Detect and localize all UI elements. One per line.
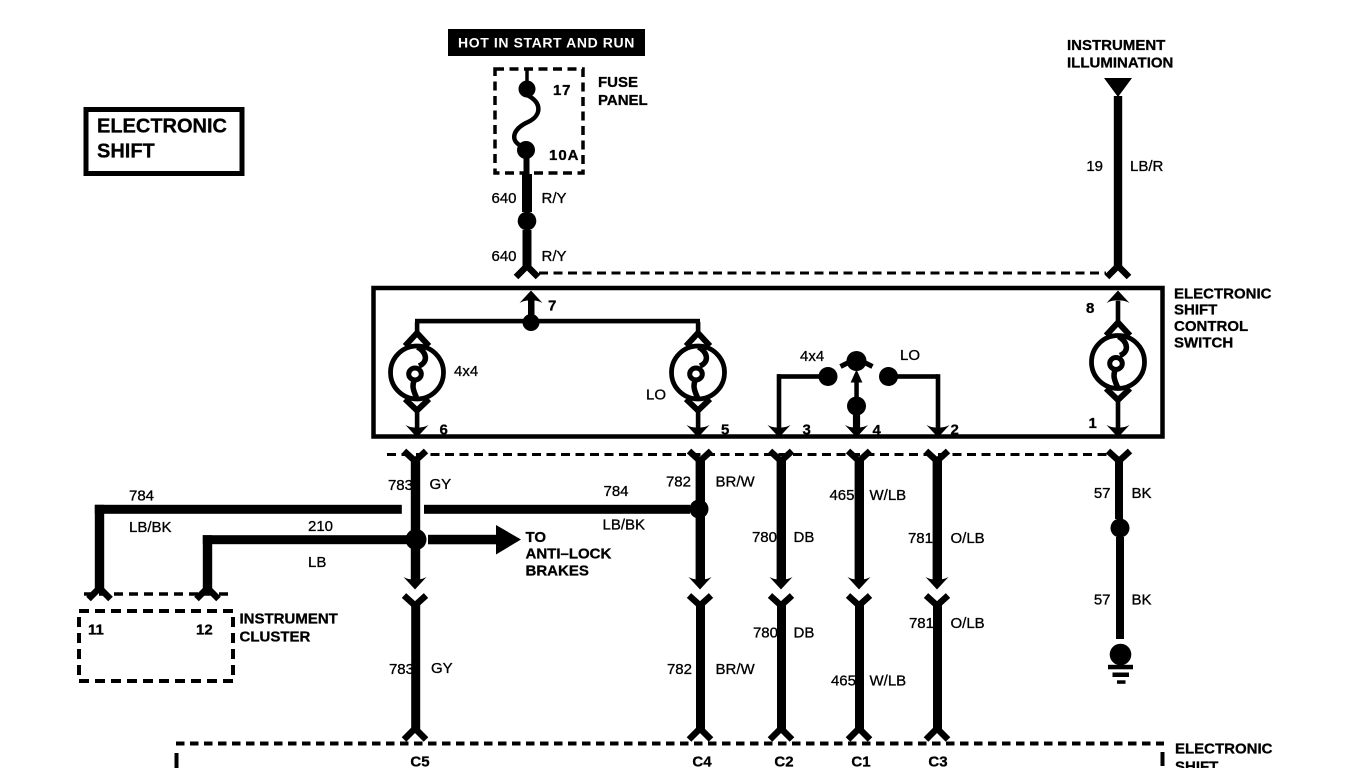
svg-text:780: 780	[753, 625, 778, 642]
svg-text:BK: BK	[1132, 485, 1152, 502]
label 57 BK lower	[1094, 592, 1152, 609]
selector switch common contact	[841, 351, 873, 371]
wire 640 R/Y lower segment	[523, 230, 532, 266]
svg-text:782: 782	[667, 661, 692, 678]
connector legs wire 784 at instrument cluster	[89, 588, 111, 599]
svg-text:57: 57	[1094, 592, 1111, 609]
svg-text:BK: BK	[1132, 592, 1152, 609]
svg-text:C4: C4	[692, 754, 712, 768]
inline connector 781 arrow	[926, 577, 949, 590]
label 784 LB/BK left	[129, 488, 172, 537]
svg-text:12: 12	[196, 622, 213, 639]
svg-text:BR/W: BR/W	[716, 474, 756, 491]
connector legs 640 at switch connector	[516, 266, 538, 277]
wire contact to pin 2	[896, 374, 940, 430]
svg-text:7: 7	[548, 298, 556, 315]
connector cup wire 780	[770, 451, 792, 461]
inline connector 780 arrow	[770, 577, 793, 590]
inline connector 782 arrow	[689, 577, 712, 590]
svg-text:ELECTRONIC: ELECTRONIC	[97, 116, 227, 138]
svg-text:BRAKES: BRAKES	[526, 563, 589, 580]
svg-text:SHIFT: SHIFT	[1175, 759, 1218, 768]
label 783 GY upper	[388, 476, 451, 494]
title box ELECTRONIC SHIFT	[86, 110, 242, 174]
svg-text:8: 8	[1086, 300, 1094, 317]
lamp LO indicator	[672, 322, 725, 430]
label 780 DB upper	[752, 529, 814, 546]
connector legs wire 210 at instrument cluster	[197, 588, 219, 599]
svg-text:LB/R: LB/R	[1130, 158, 1164, 175]
wire 780 DB lower	[777, 604, 786, 729]
selector switch wiper arrow	[851, 370, 863, 383]
inline connector 781 cup	[926, 596, 948, 606]
arrow to anti-lock brakes	[428, 525, 521, 555]
splice S640	[518, 212, 537, 231]
fuse panel label	[598, 74, 648, 109]
svg-text:465: 465	[831, 673, 856, 690]
svg-text:1: 1	[1089, 415, 1097, 432]
wire 781 O/LB upper	[933, 460, 942, 581]
svg-text:GY: GY	[430, 476, 452, 493]
svg-text:17: 17	[553, 82, 571, 99]
svg-text:4: 4	[873, 422, 882, 439]
wire 782 BR/W lower	[696, 604, 705, 729]
pin 8 arrow	[1107, 291, 1130, 304]
svg-text:ANTI–LOCK: ANTI–LOCK	[526, 546, 612, 563]
svg-text:11: 11	[88, 622, 104, 639]
instrument illumination feed arrow	[1104, 78, 1132, 97]
svg-text:O/LB: O/LB	[951, 615, 985, 632]
connector legs C3	[926, 729, 948, 740]
svg-text:LB/BK: LB/BK	[603, 517, 646, 534]
svg-text:5: 5	[721, 422, 729, 439]
bottom connector left tick	[175, 753, 179, 768]
svg-text:W/LB: W/LB	[870, 487, 907, 504]
connector legs C1	[848, 729, 870, 740]
svg-text:SWITCH: SWITCH	[1174, 335, 1233, 352]
wire 784 LB/BK left	[95, 505, 402, 590]
svg-text:HOT IN START AND RUN: HOT IN START AND RUN	[458, 35, 635, 51]
label 780 DB lower	[753, 625, 814, 642]
pin 3 arrow	[768, 425, 791, 438]
wire 19 LB/R	[1114, 96, 1122, 266]
wire 780 DB upper	[777, 460, 786, 581]
svg-text:783: 783	[389, 661, 414, 678]
svg-text:4x4: 4x4	[800, 348, 824, 365]
svg-text:780: 780	[752, 529, 777, 546]
pin 1 arrow	[1107, 425, 1130, 438]
svg-text:INSTRUMENT: INSTRUMENT	[240, 611, 338, 628]
svg-text:R/Y: R/Y	[542, 190, 567, 207]
svg-text:C2: C2	[774, 754, 793, 768]
switch contact 4x4 dot	[819, 367, 838, 386]
inline connector 783 arrow	[404, 577, 427, 590]
inline connector 783 cup	[404, 596, 426, 606]
wire contact to pin 3	[777, 374, 820, 430]
svg-text:INSTRUMENT: INSTRUMENT	[1067, 37, 1165, 54]
fuse panel dashed box	[495, 69, 583, 173]
wire 781 O/LB lower	[933, 604, 942, 729]
connector cup wire 57	[1108, 451, 1130, 461]
wire 783 GY lower	[411, 604, 420, 729]
label 781 O/LB lower	[909, 615, 985, 632]
connector cup wire 782	[689, 451, 711, 461]
harness connector dashed line below switch	[387, 453, 1110, 456]
svg-text:GY: GY	[431, 660, 453, 677]
svg-text:C1: C1	[851, 754, 870, 768]
svg-text:ELECTRONIC: ELECTRONIC	[1174, 286, 1272, 303]
wire 640 R/Y upper segment	[522, 174, 532, 212]
svg-text:LB/BK: LB/BK	[129, 519, 172, 536]
svg-text:FUSE: FUSE	[598, 74, 638, 91]
svg-text:CONTROL: CONTROL	[1174, 318, 1248, 335]
svg-text:DB: DB	[794, 625, 815, 642]
banner HOT IN START AND RUN	[448, 29, 645, 56]
connector legs C4	[689, 729, 711, 740]
lamp shift indicator right	[1092, 323, 1145, 430]
switch name label	[1174, 286, 1272, 352]
connector legs 19 at switch connector	[1107, 266, 1129, 277]
label 210 LB	[308, 518, 333, 571]
pin 6 arrow	[406, 425, 429, 438]
label 784 LB/BK right	[603, 483, 646, 534]
svg-text:O/LB: O/LB	[951, 530, 985, 547]
instrument cluster label	[240, 611, 338, 646]
wire wiper to pin 4	[853, 413, 860, 430]
wire 465 W/LB lower	[855, 604, 864, 729]
selector wiper stem	[854, 381, 859, 399]
inline connector 465 cup	[848, 596, 870, 606]
switch connector dashed line	[539, 272, 1106, 275]
svg-text:ILLUMINATION: ILLUMINATION	[1067, 55, 1173, 72]
inline connector 465 arrow	[848, 577, 871, 590]
label 465 W/LB lower	[831, 673, 906, 690]
svg-text:C3: C3	[928, 754, 947, 768]
svg-text:640: 640	[492, 190, 517, 207]
svg-text:210: 210	[308, 518, 333, 535]
wire 783 GY upper	[411, 460, 420, 581]
label 781 O/LB upper	[908, 530, 985, 547]
wire 782 BR/W upper	[696, 460, 705, 581]
selector lower node dot	[847, 397, 866, 416]
svg-text:BR/W: BR/W	[716, 661, 756, 678]
instrument illumination label	[1067, 37, 1173, 72]
svg-text:783: 783	[388, 477, 413, 494]
lamp 4x4 indicator	[391, 322, 444, 430]
pin 8 stem	[1116, 301, 1121, 324]
svg-text:781: 781	[909, 615, 934, 632]
label 640 R/Y lower	[492, 248, 567, 265]
svg-text:LO: LO	[646, 387, 666, 404]
pin 4 arrow	[845, 425, 868, 438]
svg-text:6: 6	[440, 422, 448, 439]
node pin7 junction dot	[523, 314, 540, 331]
svg-text:784: 784	[129, 488, 154, 505]
label to anti-lock brakes	[526, 529, 612, 580]
label 782 BR/W lower	[667, 661, 756, 678]
label 57 BK upper	[1094, 485, 1152, 502]
svg-text:2: 2	[951, 422, 959, 439]
label 783 GY lower	[389, 660, 453, 678]
svg-text:ELECTRONIC: ELECTRONIC	[1175, 741, 1273, 758]
node junction 784/782	[690, 500, 709, 519]
svg-text:782: 782	[666, 474, 691, 491]
node junction 783/210	[406, 529, 427, 550]
pin 5 arrow	[687, 425, 710, 438]
electronic shift control switch box	[374, 288, 1163, 437]
svg-text:19: 19	[1086, 158, 1103, 175]
inline connector 780 cup	[770, 596, 792, 606]
svg-text:781: 781	[908, 530, 933, 547]
switch contact LO dot	[879, 367, 898, 386]
svg-text:465: 465	[829, 487, 854, 504]
svg-text:C5: C5	[410, 754, 429, 768]
connector cup wire 465	[848, 451, 870, 461]
svg-text:R/Y: R/Y	[542, 248, 567, 265]
wire internal bus	[415, 319, 700, 324]
svg-text:TO: TO	[526, 529, 547, 546]
bottom connector right tick	[1161, 752, 1165, 766]
connector cup wire 781	[926, 451, 948, 461]
bottom electronic shift label	[1175, 741, 1273, 768]
svg-text:4x4: 4x4	[454, 363, 478, 380]
instrument cluster dashed box	[79, 611, 233, 681]
svg-text:PANEL: PANEL	[598, 92, 648, 109]
ground G57	[1108, 644, 1133, 684]
pin 2 arrow	[927, 425, 950, 438]
svg-text:LB: LB	[308, 554, 326, 571]
inline connector 782 cup	[689, 596, 711, 606]
connector cup wire 783	[404, 451, 426, 461]
svg-text:CLUSTER: CLUSTER	[240, 629, 311, 646]
pin 7 arrow	[520, 291, 543, 304]
connector legs C2	[770, 729, 792, 740]
svg-text:LO: LO	[900, 347, 920, 364]
svg-text:W/LB: W/LB	[870, 673, 907, 690]
svg-text:3: 3	[803, 422, 811, 439]
instrument cluster connector dashed line	[84, 592, 231, 596]
wire 465 W/LB upper	[855, 460, 864, 581]
connector legs C5	[404, 729, 426, 740]
pin 7 stem	[528, 299, 535, 324]
bottom connector dashed line	[176, 742, 1164, 746]
wire 57 BK upper	[1115, 460, 1123, 519]
splice S57	[1111, 519, 1130, 538]
svg-text:DB: DB	[794, 529, 815, 546]
label 19 LB/R	[1086, 158, 1163, 175]
svg-text:10A: 10A	[549, 147, 580, 164]
wire 784 LB/BK right	[424, 505, 690, 514]
svg-text:640: 640	[492, 248, 517, 265]
label 465 W/LB upper	[829, 487, 906, 504]
fuse F17 10A	[514, 69, 538, 176]
svg-text:SHIFT: SHIFT	[1174, 302, 1217, 319]
wire 210 LB	[203, 535, 416, 588]
svg-text:57: 57	[1094, 485, 1111, 502]
wire 57 BK lower	[1116, 537, 1124, 639]
svg-text:SHIFT: SHIFT	[97, 141, 155, 163]
label 782 BR/W upper	[666, 474, 756, 491]
label 640 R/Y upper	[492, 190, 567, 207]
svg-text:784: 784	[604, 483, 629, 500]
